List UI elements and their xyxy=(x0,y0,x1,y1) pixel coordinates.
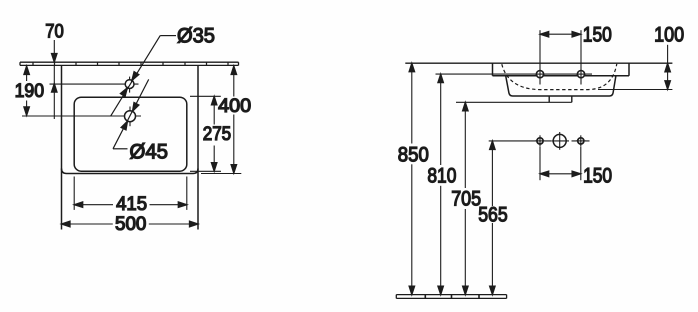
svg-text:70: 70 xyxy=(45,22,64,43)
fixing hole centreline xyxy=(489,140,590,142)
dimension 565 (floor to fixing holes) xyxy=(490,141,496,295)
tap hole right, front view xyxy=(576,69,586,79)
dimension 190 (wall to drain hole) xyxy=(24,66,30,115)
svg-text:275: 275 xyxy=(203,124,232,145)
fixing hole left xyxy=(535,135,545,146)
basin rim, front view xyxy=(493,63,630,76)
extension line fixing hole left xyxy=(539,147,541,180)
dimension 70 (wall to tap hole) xyxy=(52,40,58,119)
drain outlet circle xyxy=(552,132,568,150)
svg-text:705: 705 xyxy=(451,188,481,211)
dimension 415 (bowl width) xyxy=(74,177,187,210)
tap hole left, front view xyxy=(535,69,545,79)
dimension 500 (overall width) xyxy=(62,221,199,227)
tap hole centreline left xyxy=(539,30,541,84)
dimension 275 (bowl front depth) xyxy=(211,96,217,171)
leader and diameter arrows Ø35 xyxy=(111,36,177,117)
svg-text:Ø35: Ø35 xyxy=(177,25,215,48)
leader and diameter arrows Ø45 xyxy=(113,79,149,148)
basin body below rim, front view xyxy=(506,76,616,96)
wall hatch strip (top view rear wall) xyxy=(20,62,239,66)
basin bowl inner edge (rounded rectangle) xyxy=(74,97,187,171)
bowl depth reference line xyxy=(598,89,672,91)
tap hole level reference line xyxy=(436,73,593,75)
dimension 150 (fixing hole spacing) xyxy=(540,171,581,177)
svg-text:810: 810 xyxy=(427,165,456,188)
rim top level reference line xyxy=(405,62,672,64)
dimension 850 (floor to rim) xyxy=(409,63,415,294)
hidden bowl contour (dashed) xyxy=(502,64,617,90)
svg-text:400: 400 xyxy=(218,96,251,117)
svg-text:415: 415 xyxy=(116,194,147,215)
svg-text:100: 100 xyxy=(654,24,684,47)
dimension 705 (floor to drain outlet) xyxy=(463,102,469,294)
extension line through drain hole centre xyxy=(22,115,141,117)
dimension 810 (floor to tap hole level) xyxy=(438,74,444,295)
washbasin outer edge, top view xyxy=(62,65,199,229)
svg-text:565: 565 xyxy=(478,203,508,226)
svg-text:500: 500 xyxy=(115,214,146,235)
extension line bowl top edge xyxy=(190,95,221,97)
svg-text:190: 190 xyxy=(15,81,44,102)
extension line bowl bottom edge xyxy=(190,170,221,172)
extension line basin front edge xyxy=(201,173,241,175)
drain outlet level reference line xyxy=(456,101,572,103)
dimension 150 (tap hole spacing) xyxy=(540,32,581,38)
dimension 100 (bowl depth) xyxy=(665,45,671,90)
extension line through tap hole centre xyxy=(50,83,139,85)
extension line fixing hole right xyxy=(580,147,582,180)
tap hole Ø35 xyxy=(125,77,134,93)
drain outlet block xyxy=(549,96,572,102)
dimension 400 (overall depth) xyxy=(231,66,237,173)
fixing hole right xyxy=(576,135,586,146)
svg-text:850: 850 xyxy=(398,144,429,167)
svg-text:150: 150 xyxy=(583,165,612,188)
svg-text:Ø45: Ø45 xyxy=(130,140,169,163)
tap hole centreline right xyxy=(580,30,582,84)
svg-text:150: 150 xyxy=(583,24,612,47)
drain hole Ø45 xyxy=(125,107,136,127)
floor hatch strip xyxy=(396,294,506,298)
